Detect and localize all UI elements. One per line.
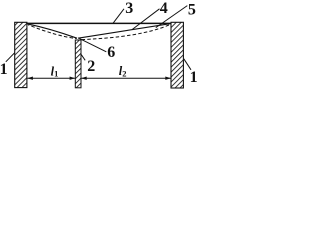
leader to label 5: [156, 6, 188, 28]
svg-text:5: 5: [188, 2, 196, 19]
leader to label 3: [113, 9, 124, 23]
wire: left span solid settled profile: [27, 24, 77, 38]
svg-text:1: 1: [190, 69, 198, 86]
line 3: initial straight (horizontal) beam position: [27, 22, 172, 24]
middle pier (2): [75, 40, 81, 88]
leader to label 6: [79, 38, 106, 51]
svg-text:2: 2: [87, 58, 95, 75]
dimension line l2 with arrows: [81, 77, 171, 80]
leader to right label 1: [184, 59, 191, 70]
wire: right span dashed deflection curve (5): [82, 24, 171, 39]
wire: right span solid settled profile (4): [78, 24, 171, 39]
dimension line l1 with arrows: [27, 77, 75, 80]
leader to label 4: [132, 9, 160, 30]
svg-text:6: 6: [107, 44, 115, 61]
wire: left span dashed deflection curve: [28, 25, 76, 39]
svg-text:3: 3: [125, 0, 133, 17]
leader to left label 1: [6, 53, 15, 62]
svg-text:4: 4: [160, 0, 168, 17]
svg-text:1: 1: [0, 61, 8, 78]
abutment wall right (1): [171, 22, 183, 88]
abutment wall left (1): [15, 22, 27, 87]
leader to label 2: [81, 54, 86, 61]
